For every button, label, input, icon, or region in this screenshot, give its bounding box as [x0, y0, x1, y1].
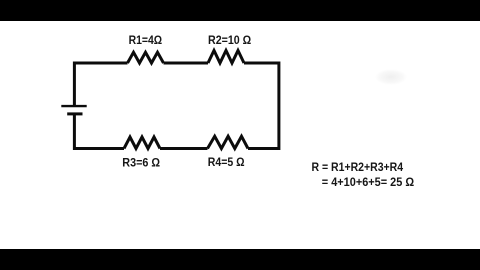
- svg-text:= 4+10+6+5= 25 Ω: = 4+10+6+5= 25 Ω: [322, 175, 415, 189]
- wire: bottom segment between R4 and R3: [160, 147, 208, 150]
- svg-text:R3=6 Ω: R3=6 Ω: [122, 157, 160, 169]
- svg-text:R2=10 Ω: R2=10 Ω: [208, 35, 251, 47]
- resistor R1: [128, 52, 164, 63]
- battery B1 long plate (+): [61, 105, 86, 107]
- resistor R3: [124, 137, 160, 149]
- wire: top-right segment + right vertical + bottom-right corner to R4: [244, 63, 279, 149]
- wire: top segment between R1 and R2: [164, 62, 209, 65]
- battery B1 short plate (-): [67, 112, 82, 115]
- wire: left vertical (top) + top-left corner + top wire segment to R1: [74, 63, 127, 106]
- resistor R4: [208, 136, 249, 148]
- svg-text:R4=5 Ω: R4=5 Ω: [208, 157, 245, 169]
- svg-text:R1=4Ω: R1=4Ω: [129, 35, 163, 47]
- wire: bottom-left segment + left vertical up to battery: [74, 115, 124, 149]
- resistor R2: [208, 51, 244, 64]
- svg-text:R = R1+R2+R3+R4: R = R1+R2+R3+R4: [312, 160, 404, 174]
- faint smudge artifact: [375, 69, 407, 85]
